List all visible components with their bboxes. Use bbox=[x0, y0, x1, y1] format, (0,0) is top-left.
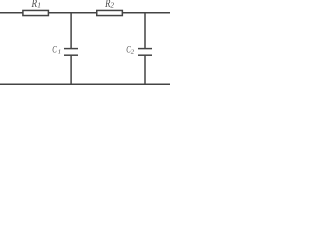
svg-text:1: 1 bbox=[58, 49, 61, 56]
wire C2 top stub (from top rail node down to C2) bbox=[144, 13, 146, 49]
label R2 bbox=[104, 0, 114, 10]
wire C1 bottom stub (from C1 down to bottom rail) bbox=[70, 55, 72, 84]
svg-text:1: 1 bbox=[37, 1, 41, 10]
svg-text:2: 2 bbox=[131, 48, 135, 55]
wire top rail right segment (R2 to output, through node at C2) bbox=[122, 12, 170, 14]
resistor R2 (box symbol) bbox=[97, 10, 123, 15]
resistor R1 (box symbol) bbox=[23, 10, 49, 15]
wire C2 bottom stub (from C2 down to bottom rail) bbox=[144, 55, 146, 84]
capacitor C1 (parallel plates) bbox=[64, 49, 78, 56]
label C1 bbox=[52, 45, 61, 56]
wire C1 top stub (from top rail node down to C1) bbox=[70, 13, 72, 49]
svg-text:2: 2 bbox=[110, 2, 114, 10]
label R1 bbox=[31, 0, 41, 10]
wire top rail middle segment (R1 to R2, through node at C1) bbox=[48, 12, 96, 14]
svg-text:C: C bbox=[52, 45, 57, 55]
label C2 bbox=[126, 45, 135, 56]
wire top rail left segment (input to R1) bbox=[0, 12, 23, 14]
wire bottom rail (common return / ground rail) bbox=[0, 83, 170, 85]
capacitor C2 (parallel plates) bbox=[138, 49, 152, 56]
